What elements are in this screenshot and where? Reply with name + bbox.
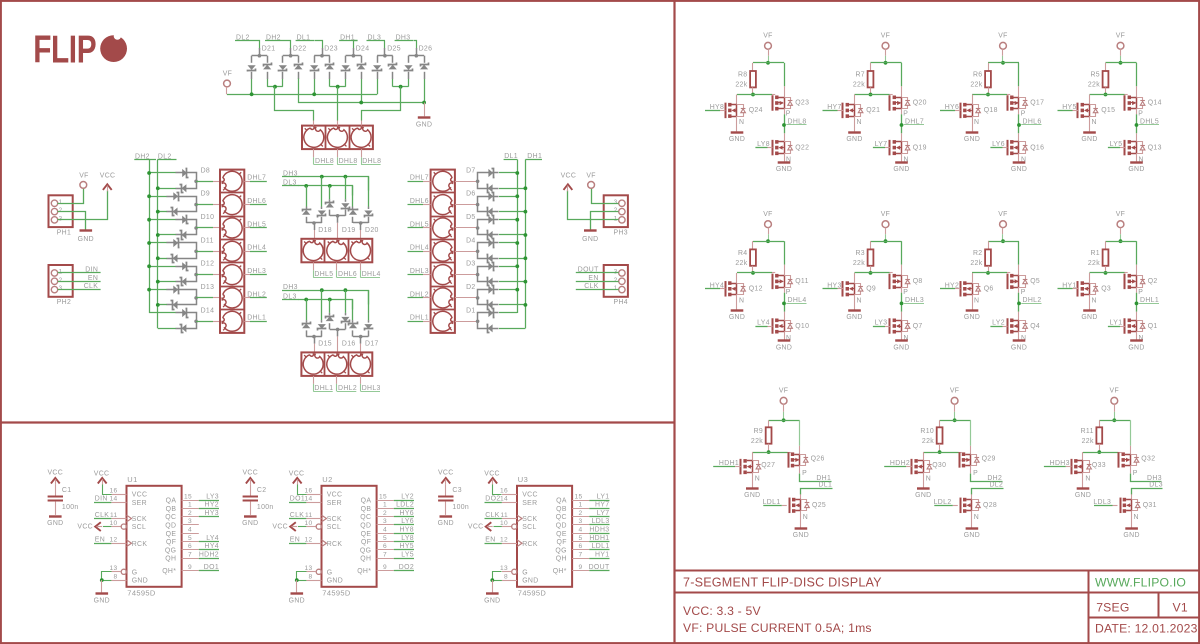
svg-text:N: N xyxy=(1085,476,1090,483)
wire to disc xyxy=(196,297,213,299)
svg-text:13: 13 xyxy=(109,565,117,572)
transistor Q26 (P-MOSFET) xyxy=(788,452,790,468)
svg-text:DHL6: DHL6 xyxy=(410,198,429,205)
svg-text:N: N xyxy=(926,476,931,483)
svg-text:QE: QE xyxy=(361,531,372,538)
svg-text:QH: QH xyxy=(360,556,371,563)
capacitor C1 xyxy=(55,485,57,496)
svg-text:1: 1 xyxy=(383,502,387,509)
svg-text:16: 16 xyxy=(109,487,117,494)
svg-text:LY2: LY2 xyxy=(992,320,1005,327)
wire P-drain xyxy=(1018,287,1020,293)
svg-text:D8: D8 xyxy=(201,167,211,174)
svg-text:D1: D1 xyxy=(466,307,476,314)
wire to disc xyxy=(196,321,213,323)
wire VF split xyxy=(871,241,902,243)
wire VF to P-source xyxy=(901,63,903,87)
svg-text:9: 9 xyxy=(188,564,192,571)
net label CLK (PH2) xyxy=(58,289,101,291)
net label LY1 xyxy=(572,500,589,502)
wire DL3 to D25 xyxy=(384,41,386,49)
net label DHL1 (right col) xyxy=(408,321,424,323)
resistor R9 xyxy=(768,420,770,427)
svg-text:VCC: VCC xyxy=(289,470,305,477)
pin stub xyxy=(337,121,339,126)
wire P-drain xyxy=(901,109,903,115)
svg-text:QD: QD xyxy=(556,523,567,530)
svg-text:Q2: Q2 xyxy=(1148,278,1158,285)
pin 13 G xyxy=(121,569,126,574)
wire to disc xyxy=(196,204,213,206)
diode pack D16 xyxy=(329,300,331,313)
pin 16 VCC xyxy=(306,494,321,496)
svg-text:GND: GND xyxy=(729,136,745,143)
ground (Q10) xyxy=(784,332,786,340)
svg-text:LY7: LY7 xyxy=(597,510,610,517)
svg-text:C3: C3 xyxy=(452,487,462,494)
svg-text:Q12: Q12 xyxy=(749,286,763,293)
flip-disc xyxy=(222,241,242,261)
svg-text:VCC: VCC xyxy=(94,470,110,477)
svg-text:U1: U1 xyxy=(127,475,137,484)
svg-text:9: 9 xyxy=(578,564,582,571)
resistor R4 xyxy=(752,241,754,249)
pin 16 VCC xyxy=(502,494,517,496)
wire VCC to pin16 xyxy=(493,485,502,495)
svg-text:2: 2 xyxy=(614,207,618,214)
svg-text:D15: D15 xyxy=(318,340,332,347)
svg-text:GND: GND xyxy=(776,166,792,173)
svg-text:5: 5 xyxy=(383,535,387,542)
wire VF split xyxy=(871,62,902,64)
svg-text:SER: SER xyxy=(522,500,537,507)
svg-text:DHL6: DHL6 xyxy=(338,271,357,278)
panel divider vertical xyxy=(673,1,675,643)
flip-disc module DHL8 x3 xyxy=(302,126,373,150)
svg-text:P: P xyxy=(802,470,807,477)
svg-text:CLK: CLK xyxy=(95,512,110,519)
svg-text:V1: V1 xyxy=(1173,601,1188,615)
junction xyxy=(1104,271,1108,275)
svg-text:DATE: 12.01.2023: DATE: 12.01.2023 xyxy=(1095,622,1198,636)
svg-text:4: 4 xyxy=(578,527,582,534)
svg-text:PH4: PH4 xyxy=(614,299,628,306)
ground (U3) xyxy=(492,580,494,592)
svg-text:DHL6: DHL6 xyxy=(247,198,266,205)
svg-text:R3: R3 xyxy=(855,250,865,257)
net label LY7 xyxy=(572,516,589,518)
transistor Q10 (N-MOSFET) xyxy=(784,312,786,321)
pin 16 VCC xyxy=(111,494,126,496)
flip-disc column left box xyxy=(220,170,244,333)
svg-text:VCC: 3.3 - 5V: VCC: 3.3 - 5V xyxy=(683,604,761,618)
svg-text:Q33: Q33 xyxy=(1092,462,1106,469)
svg-text:LY4: LY4 xyxy=(206,535,219,542)
net label DHL2 xyxy=(336,384,338,391)
svg-text:6: 6 xyxy=(188,543,192,550)
transistor Q24 (N-MOSFET) xyxy=(736,95,738,105)
wire VF xyxy=(885,228,887,235)
net label HDH3 xyxy=(572,533,589,535)
transistor Q19 (N-MOSFET) xyxy=(901,133,903,142)
flip-disc xyxy=(222,171,242,191)
junction node DHL3 xyxy=(900,302,904,306)
svg-text:QF: QF xyxy=(361,539,371,546)
svg-text:D7: D7 xyxy=(466,167,476,174)
net label EN (PH2) xyxy=(58,281,101,283)
junction xyxy=(953,418,957,422)
pin 13 G xyxy=(316,569,321,574)
junction node DHL2 xyxy=(1017,302,1021,306)
svg-text:GND: GND xyxy=(1081,314,1097,321)
transistor Q25 (N-MOSFET) xyxy=(789,498,791,514)
svg-text:SCK: SCK xyxy=(327,516,342,523)
flip-disc xyxy=(433,288,453,308)
svg-text:R10: R10 xyxy=(920,428,934,435)
junction node DHL5 xyxy=(1135,123,1139,127)
junction xyxy=(751,271,755,275)
svg-text:2: 2 xyxy=(59,277,63,284)
net label DHL6 xyxy=(336,270,338,277)
svg-text:14: 14 xyxy=(109,496,117,503)
ground (Q1) xyxy=(1136,332,1138,340)
svg-text:G: G xyxy=(522,569,528,576)
wire VF split xyxy=(1099,420,1130,422)
svg-text:2: 2 xyxy=(59,207,63,214)
wire gate feed xyxy=(972,94,1007,96)
svg-text:Q9: Q9 xyxy=(866,286,876,293)
junction xyxy=(1001,239,1005,243)
svg-text:DHL7: DHL7 xyxy=(410,175,429,182)
junction xyxy=(156,233,160,237)
svg-text:P: P xyxy=(1021,111,1026,118)
svg-text:22k: 22k xyxy=(751,438,763,445)
svg-text:Q6: Q6 xyxy=(984,286,994,293)
svg-text:SCL: SCL xyxy=(132,524,146,531)
svg-text:8: 8 xyxy=(504,573,508,580)
transistor Q18 (N-MOSFET) xyxy=(972,95,974,105)
wire to disc xyxy=(196,181,213,183)
wire VF to P-source xyxy=(799,420,801,446)
junction xyxy=(524,210,528,214)
svg-text:R4: R4 xyxy=(738,250,748,257)
flip-disc xyxy=(433,171,453,191)
wire gate feed xyxy=(1083,452,1118,454)
ground (Q12) xyxy=(736,295,738,310)
transistor Q11 (P-MOSFET) xyxy=(772,274,774,290)
svg-text:GND: GND xyxy=(729,314,745,321)
svg-text:Q23: Q23 xyxy=(795,100,809,107)
svg-text:VF: VF xyxy=(779,388,789,395)
svg-text:DHL8: DHL8 xyxy=(315,158,334,165)
net label DH3 xyxy=(1130,466,1132,474)
svg-text:HDH3: HDH3 xyxy=(589,527,609,534)
svg-text:1: 1 xyxy=(578,502,582,509)
svg-text:GND: GND xyxy=(915,492,931,499)
net label LY6 xyxy=(377,524,394,526)
svg-text:QC: QC xyxy=(360,514,371,521)
pin stub xyxy=(336,262,338,270)
junction xyxy=(515,241,519,245)
svg-text:VF: VF xyxy=(586,173,596,180)
svg-text:DHL4: DHL4 xyxy=(362,271,381,278)
svg-text:VCC: VCC xyxy=(522,492,538,499)
junction xyxy=(250,92,254,96)
svg-text:DHL5: DHL5 xyxy=(247,221,266,228)
svg-text:VF: VF xyxy=(1116,33,1126,40)
junction xyxy=(147,171,151,175)
wire VF xyxy=(768,49,770,56)
svg-text:13: 13 xyxy=(500,565,508,572)
junction xyxy=(399,85,403,89)
svg-text:D13: D13 xyxy=(201,284,215,291)
svg-text:GND: GND xyxy=(964,314,980,321)
svg-text:3: 3 xyxy=(578,518,582,525)
junction node DHL1 xyxy=(1135,302,1139,306)
svg-text:GND: GND xyxy=(484,598,500,605)
svg-text:Q10: Q10 xyxy=(795,323,809,330)
wire VF xyxy=(1002,49,1004,56)
resistor R8 xyxy=(752,63,754,71)
net label DHL2 (left col) xyxy=(244,297,250,299)
svg-text:GND: GND xyxy=(1011,166,1027,173)
junction xyxy=(884,239,888,243)
svg-text:VF: VF xyxy=(1110,388,1120,395)
wire PH3.2 to GND xyxy=(591,212,619,230)
transistor Q30 (N-MOSFET) xyxy=(923,452,925,461)
net label DHL3 xyxy=(360,384,362,391)
junction xyxy=(515,288,519,292)
svg-text:U2: U2 xyxy=(322,475,332,484)
svg-text:Q27: Q27 xyxy=(761,462,775,469)
ground (Q31) xyxy=(1131,511,1133,528)
svg-text:10: 10 xyxy=(109,520,117,527)
junction xyxy=(524,186,528,190)
svg-text:Q4: Q4 xyxy=(1030,323,1040,330)
junction xyxy=(312,92,316,96)
wire P-drain xyxy=(1136,109,1138,115)
svg-text:22k: 22k xyxy=(970,82,982,89)
pin stub xyxy=(361,121,363,126)
svg-text:QH: QH xyxy=(165,556,176,563)
svg-text:LDL1: LDL1 xyxy=(763,499,781,506)
ground (Q24) xyxy=(736,116,738,131)
svg-text:QH: QH xyxy=(556,556,567,563)
junction xyxy=(1001,61,1005,65)
svg-text:N: N xyxy=(974,119,979,126)
resistor R10 xyxy=(939,420,941,427)
junction xyxy=(782,418,786,422)
wire pack pair join xyxy=(267,79,269,87)
junction xyxy=(344,175,348,179)
transistor Q7 (N-MOSFET) xyxy=(901,312,903,321)
net label DHL5 xyxy=(313,270,315,277)
svg-text:EN: EN xyxy=(290,537,300,544)
junction xyxy=(986,271,990,275)
wire gate feed xyxy=(752,452,787,454)
svg-text:DHL2: DHL2 xyxy=(410,291,429,298)
wire gate feed xyxy=(923,452,958,454)
wire gate feed xyxy=(855,94,890,96)
svg-text:RCK: RCK xyxy=(522,541,538,548)
svg-text:10: 10 xyxy=(500,520,508,527)
svg-text:13: 13 xyxy=(304,565,312,572)
svg-text:R1: R1 xyxy=(1090,250,1100,257)
shift register U2 xyxy=(322,486,377,587)
svg-text:D2: D2 xyxy=(466,284,476,291)
transistor Q17 (P-MOSFET) xyxy=(1007,95,1009,111)
junction xyxy=(359,101,363,105)
ground (C3) xyxy=(440,515,453,517)
svg-text:D10: D10 xyxy=(201,214,215,221)
svg-text:QA: QA xyxy=(361,498,372,505)
net label DH1 xyxy=(799,466,801,474)
wire VF to P-source xyxy=(784,63,786,87)
svg-text:QA: QA xyxy=(556,498,567,505)
svg-text:VCC: VCC xyxy=(561,173,577,180)
net label HY6 xyxy=(377,516,394,518)
transistor Q1 (N-MOSFET) xyxy=(1136,312,1138,321)
svg-text:GND: GND xyxy=(1128,344,1144,351)
svg-text:Q31: Q31 xyxy=(1143,502,1157,509)
ground (diode matrix) xyxy=(424,103,426,117)
capacitor C2 xyxy=(250,485,252,496)
svg-text:Q20: Q20 xyxy=(913,100,927,107)
svg-text:DIN: DIN xyxy=(95,496,108,503)
svg-text:Q15: Q15 xyxy=(1101,107,1115,114)
net label DHL8 xyxy=(361,157,363,164)
wire PH1.1 to VF xyxy=(58,189,84,204)
wire DH1 to D24 xyxy=(354,41,358,49)
transistor Q32 (P-MOSFET) xyxy=(1118,452,1120,468)
svg-text:R7: R7 xyxy=(855,72,865,79)
svg-text:LY4: LY4 xyxy=(757,320,770,327)
wire DL3 xyxy=(299,186,353,196)
svg-text:DHL3: DHL3 xyxy=(247,268,266,275)
svg-text:CLK: CLK xyxy=(84,283,99,290)
wire DL2 bus xyxy=(157,160,159,329)
svg-text:QC: QC xyxy=(165,514,176,521)
ground (C2) xyxy=(244,515,257,517)
svg-text:P: P xyxy=(1133,470,1138,477)
net label DHL4 (right col) xyxy=(408,251,424,253)
svg-text:R11: R11 xyxy=(1081,428,1094,435)
svg-text:DHL1: DHL1 xyxy=(410,315,429,322)
junction xyxy=(422,101,426,105)
transistor Q6 (N-MOSFET) xyxy=(972,273,974,283)
wire DH2 to D22 xyxy=(284,41,291,49)
svg-text:QE: QE xyxy=(166,531,177,538)
junction xyxy=(767,450,771,454)
wire pack pair join xyxy=(329,79,331,87)
transistor Q28 (N-MOSFET) xyxy=(960,498,962,514)
clock input pin 12 xyxy=(517,540,522,547)
svg-text:11: 11 xyxy=(110,512,118,519)
svg-text:12: 12 xyxy=(304,537,312,544)
svg-text:GND: GND xyxy=(242,520,258,527)
svg-text:LDL2: LDL2 xyxy=(396,502,414,509)
svg-text:1: 1 xyxy=(59,199,63,206)
svg-text:D3: D3 xyxy=(466,261,476,268)
svg-text:5: 5 xyxy=(188,535,192,542)
wire D21L drop xyxy=(251,79,253,94)
wire P-drain xyxy=(901,287,903,293)
net label DOUT (PH4) xyxy=(576,272,619,274)
junction xyxy=(1112,418,1116,422)
svg-text:D26: D26 xyxy=(419,45,433,52)
transistor Q14 (P-MOSFET) xyxy=(1124,95,1126,111)
svg-text:N: N xyxy=(1092,298,1097,305)
svg-text:Q17: Q17 xyxy=(1030,100,1044,107)
svg-text:D23: D23 xyxy=(324,45,338,52)
svg-text:Q24: Q24 xyxy=(749,107,763,114)
junction node DHL8 xyxy=(782,123,786,127)
wire VF split xyxy=(988,62,1019,64)
svg-text:7SEG: 7SEG xyxy=(1096,601,1129,615)
wire VF to P-source xyxy=(1018,63,1020,87)
net label HY7 xyxy=(572,508,589,510)
transistor Q3 (N-MOSFET) xyxy=(1089,273,1091,283)
svg-text:VF: VF xyxy=(998,33,1008,40)
svg-text:22k: 22k xyxy=(922,438,934,445)
junction xyxy=(147,194,151,198)
wire disc feed left xyxy=(275,87,314,121)
wire PH3.1 to VCC xyxy=(568,191,619,220)
svg-text:LY3: LY3 xyxy=(206,493,219,500)
svg-text:4: 4 xyxy=(188,527,192,534)
svg-text:HY1: HY1 xyxy=(595,551,609,558)
svg-text:LDL3: LDL3 xyxy=(1093,499,1111,506)
svg-text:DL3: DL3 xyxy=(1149,482,1163,489)
svg-text:3: 3 xyxy=(383,518,387,525)
svg-text:GND: GND xyxy=(793,532,809,539)
svg-text:VF: VF xyxy=(1116,211,1126,218)
junction xyxy=(515,264,519,268)
flip-disc module DHL5/DHL6/DHL4 xyxy=(301,239,372,262)
net label HDH2 xyxy=(182,558,199,560)
connector PH3 xyxy=(604,195,628,227)
junction xyxy=(766,239,770,243)
junction xyxy=(156,186,160,190)
svg-text:EN: EN xyxy=(485,537,495,544)
svg-text:LY1: LY1 xyxy=(597,493,610,500)
wire VF split xyxy=(753,62,784,64)
svg-text:Q5: Q5 xyxy=(1030,278,1040,285)
svg-text:DO1: DO1 xyxy=(204,564,219,571)
junction xyxy=(156,256,160,260)
svg-text:CLK: CLK xyxy=(485,512,500,519)
ground (Q19) xyxy=(901,153,903,161)
svg-text:R2: R2 xyxy=(973,250,983,257)
svg-text:DHL7: DHL7 xyxy=(247,175,266,182)
svg-text:D9: D9 xyxy=(201,191,211,198)
transistor Q27 (N-MOSFET) xyxy=(752,452,754,461)
flip-disc xyxy=(433,241,453,261)
shift register U1 xyxy=(127,486,182,587)
net label DHL5 (left col) xyxy=(244,227,250,229)
junction xyxy=(320,288,324,292)
svg-text:LDL1: LDL1 xyxy=(592,543,610,550)
ground (Q3) xyxy=(1089,295,1091,310)
svg-text:VCC: VCC xyxy=(468,523,484,530)
net label LDL3 xyxy=(572,524,589,526)
svg-text:QC: QC xyxy=(556,514,567,521)
svg-text:22k: 22k xyxy=(735,260,747,267)
svg-text:D20: D20 xyxy=(365,227,379,234)
junction xyxy=(986,93,990,97)
net label DHL3 (right col) xyxy=(408,274,424,276)
svg-text:DIN: DIN xyxy=(85,267,98,274)
